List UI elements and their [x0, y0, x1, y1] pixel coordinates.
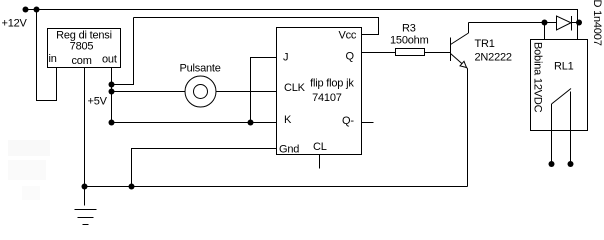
svg-text:out: out	[102, 54, 117, 66]
svg-text:in: in	[49, 53, 57, 65]
svg-text:Q-: Q-	[342, 115, 354, 127]
svg-text:TR1: TR1	[475, 38, 495, 50]
svg-text:74107: 74107	[312, 92, 342, 104]
svg-text:2N2222: 2N2222	[475, 52, 512, 64]
svg-text:K: K	[284, 114, 292, 126]
svg-text:Pulsante: Pulsante	[180, 63, 221, 75]
svg-text:+12V: +12V	[2, 18, 28, 30]
svg-text:CL: CL	[313, 141, 327, 153]
svg-text:Bobina 12VDC: Bobina 12VDC	[532, 42, 544, 113]
svg-text:J: J	[283, 52, 288, 64]
svg-text:Vcc: Vcc	[339, 30, 357, 42]
svg-text:D 1n4007: D 1n4007	[591, 0, 603, 46]
svg-text:Gnd: Gnd	[279, 144, 299, 156]
svg-text:Q: Q	[346, 51, 355, 63]
svg-text:R3: R3	[402, 23, 416, 35]
svg-text:flip flop jk: flip flop jk	[310, 78, 354, 90]
svg-text:150ohm: 150ohm	[390, 35, 429, 47]
svg-text:7805: 7805	[70, 41, 94, 53]
svg-text:com: com	[72, 55, 92, 67]
svg-text:+5V: +5V	[88, 96, 108, 108]
svg-text:CLK: CLK	[284, 82, 306, 94]
svg-text:RL1: RL1	[554, 61, 574, 73]
